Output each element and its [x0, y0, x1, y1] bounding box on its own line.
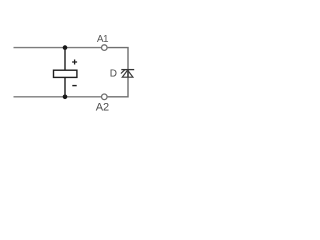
node junction top	[63, 45, 68, 50]
wire top-left horizontal	[14, 47, 102, 49]
polarity minus label	[72, 85, 76, 87]
polarity plus label	[72, 60, 77, 65]
diode D triangle	[122, 70, 133, 77]
svg-text:A1: A1	[97, 34, 109, 45]
svg-text:A2: A2	[96, 101, 109, 113]
terminal A1	[102, 45, 108, 51]
wire diode vertical segment	[127, 70, 129, 78]
wire bottom-left horizontal	[14, 96, 102, 98]
relay coil K (box)	[54, 70, 77, 77]
diode D cathode tick	[121, 70, 125, 74]
node junction bottom	[63, 95, 68, 100]
wire vertical coil branch	[64, 48, 66, 97]
diode D cathode bar	[121, 69, 134, 71]
terminal A2	[102, 94, 108, 100]
wire right loop A1 to A2 via diode	[108, 48, 128, 97]
svg-text:D: D	[110, 69, 117, 80]
